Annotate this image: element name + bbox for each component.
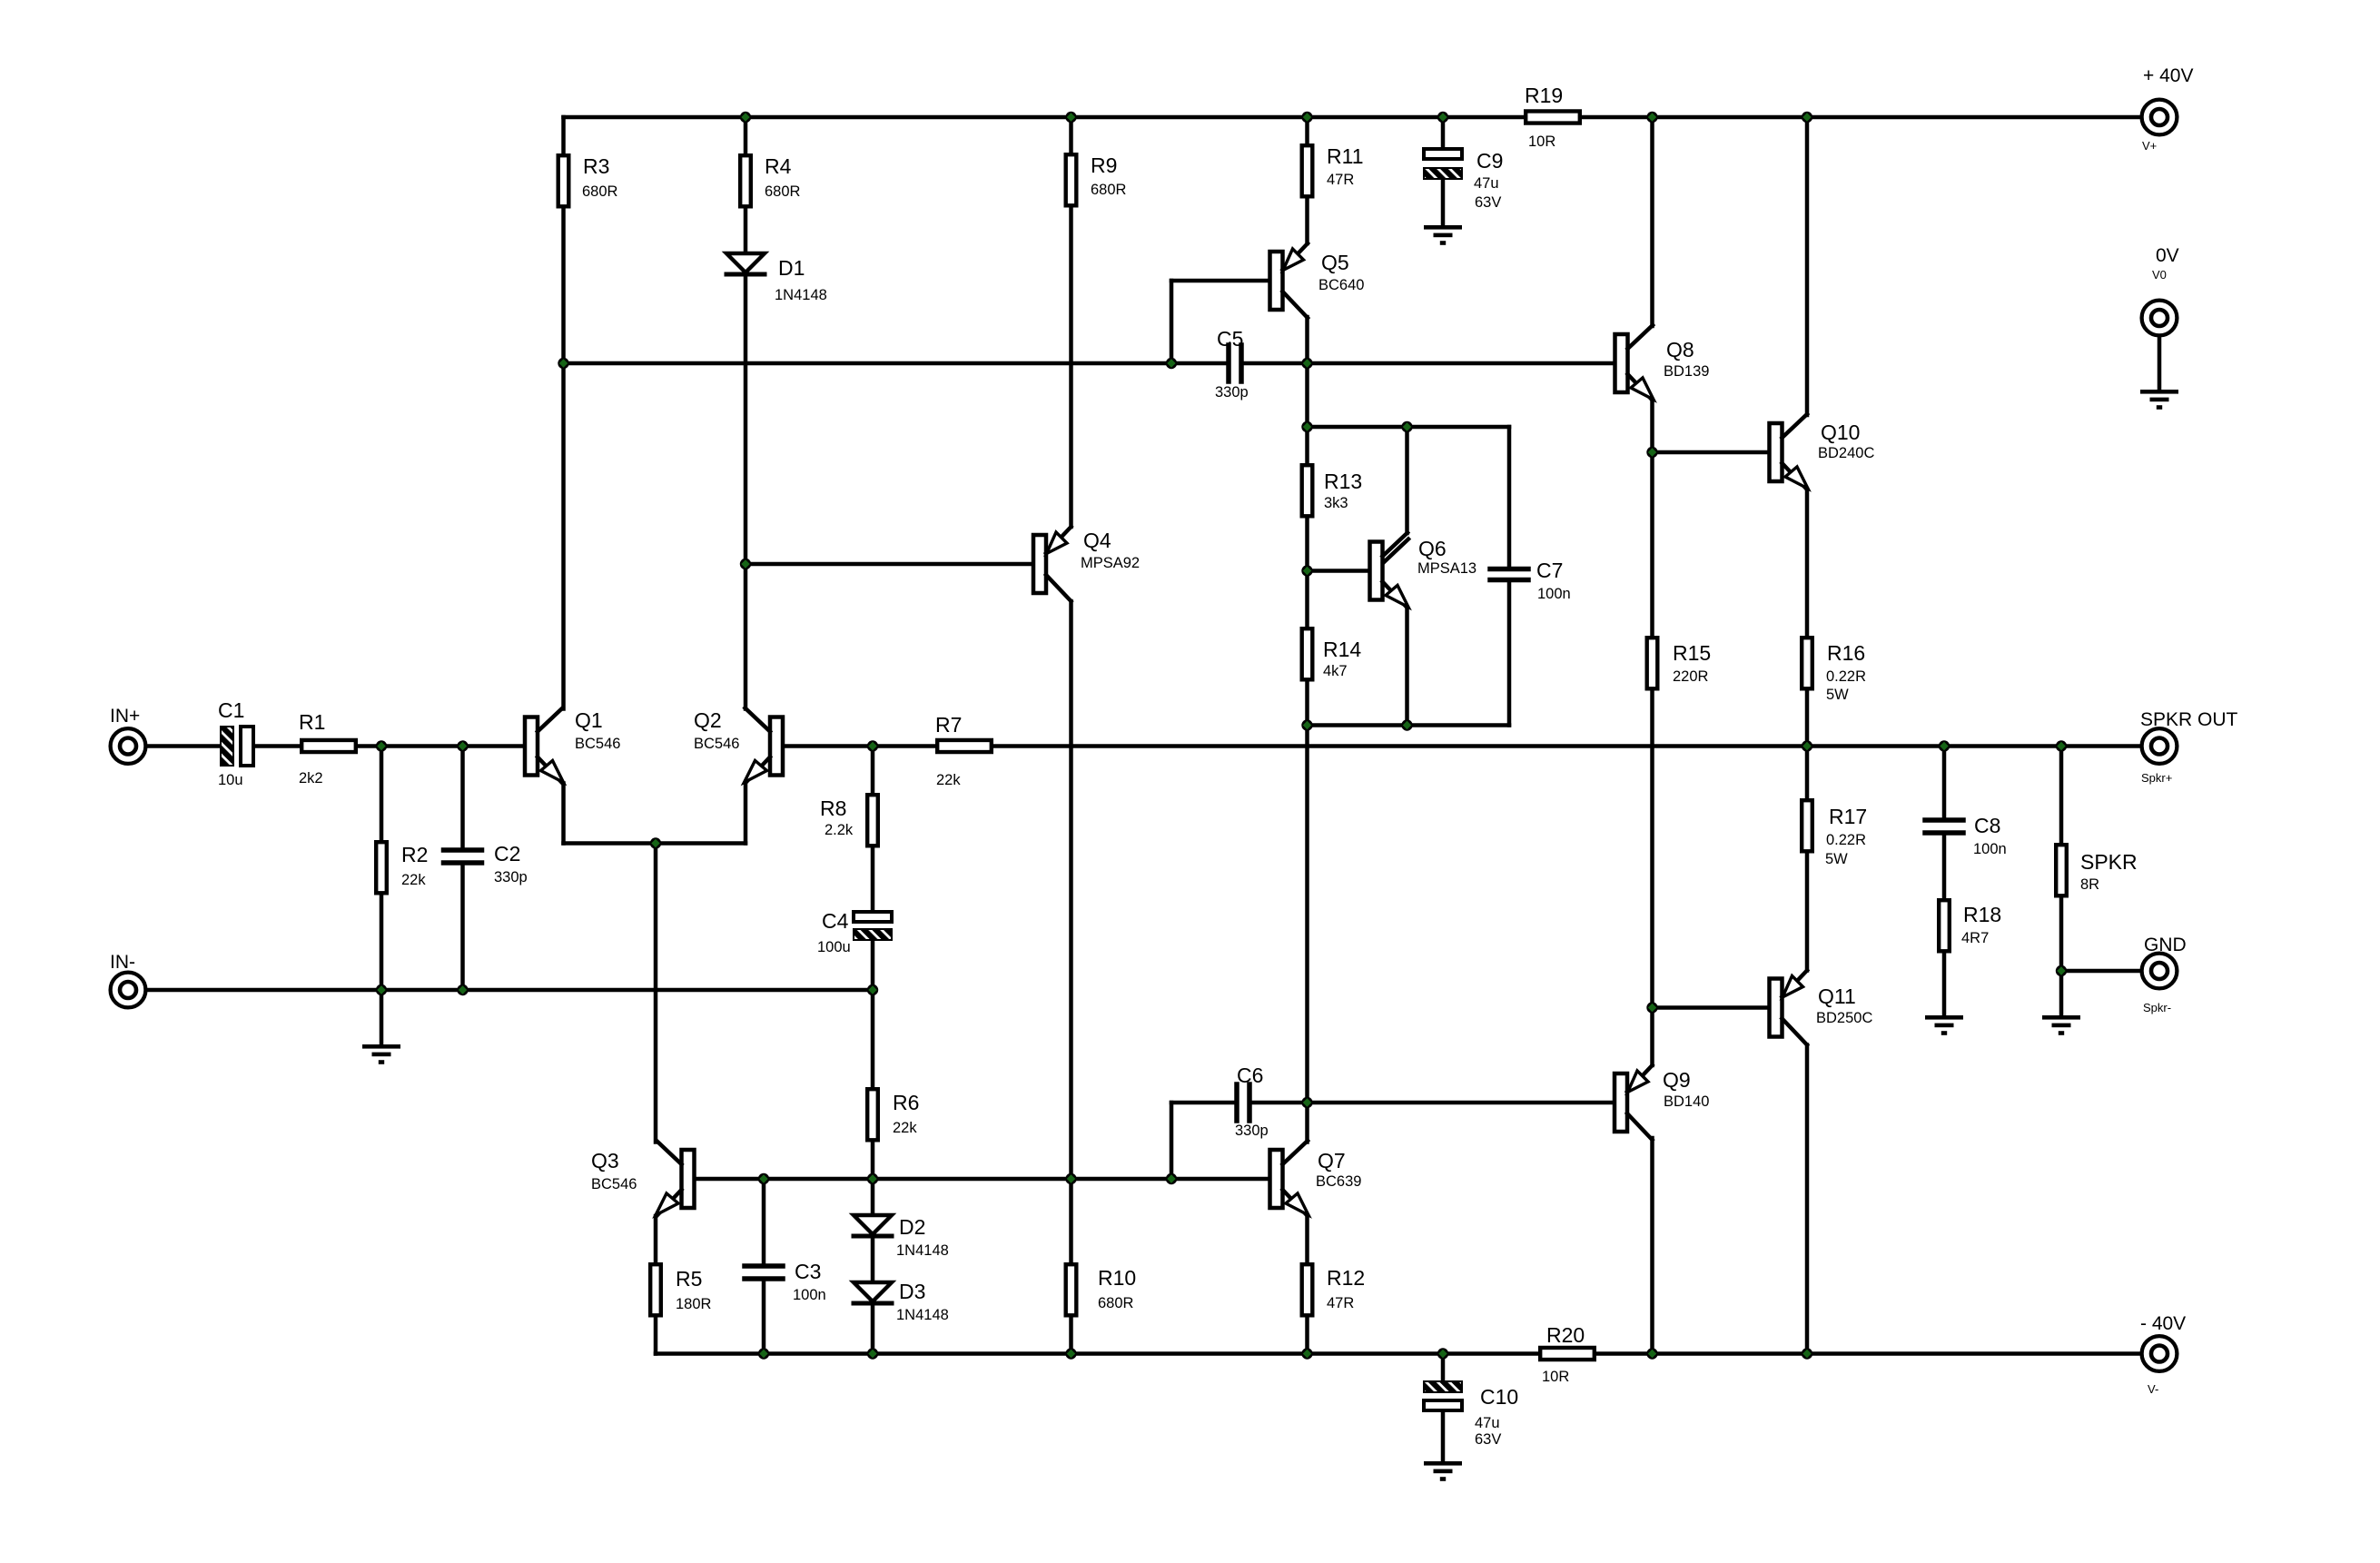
svg-text:680R: 680R [765, 183, 801, 200]
svg-text:R7: R7 [935, 713, 962, 737]
junction C3/bottom rail [758, 1348, 769, 1359]
terminal GND [2142, 935, 2187, 1014]
resistor R13 [1302, 465, 1363, 516]
junction R8/R7 node [867, 740, 878, 751]
junction C8/output rail [1939, 740, 1950, 751]
terminal -40V [2140, 1313, 2186, 1396]
svg-text:Q8: Q8 [1666, 338, 1694, 361]
wire Q4 collector to R10 to bottom rail [1069, 601, 1073, 1354]
svg-text:BD250C: BD250C [1816, 1010, 1872, 1026]
junction Q6 emitter/box bottom [1401, 719, 1412, 730]
wire R6 column (IN- to D2 node) [871, 990, 875, 1215]
svg-text:220R: 220R [1673, 668, 1709, 685]
svg-text:100u: 100u [817, 939, 851, 955]
wire R14 branch [1305, 571, 1309, 726]
svg-text:Q7: Q7 [1318, 1149, 1346, 1172]
wire D3 to bottom rail [871, 1304, 875, 1354]
svg-text:+ 40V: + 40V [2143, 65, 2193, 86]
ground 0V [2140, 390, 2178, 394]
svg-text:Q2: Q2 [694, 708, 722, 732]
svg-text:2k2: 2k2 [299, 770, 323, 786]
svg-text:C10: C10 [1480, 1385, 1518, 1409]
junction C4/IN- line [867, 984, 878, 995]
resistor R2 [376, 842, 428, 893]
svg-text:C4: C4 [822, 909, 849, 933]
wire C7 column upper [1507, 427, 1512, 566]
svg-text:0V: 0V [2156, 245, 2179, 266]
wire Q3 emitter to R5 [654, 1216, 658, 1262]
junction emitter tail [650, 837, 661, 848]
wire tail to Q3 collector [654, 844, 658, 1143]
svg-text:V+: V+ [2142, 139, 2157, 153]
wire SPKR to ground [2059, 971, 2064, 1015]
wire C6 left link [1171, 1101, 1237, 1105]
wire IN+ to C1 [148, 744, 221, 748]
svg-text:Q10: Q10 [1821, 420, 1860, 444]
svg-text:R2: R2 [401, 843, 428, 866]
junction Q9 collector/bottom rail [1646, 1348, 1657, 1359]
svg-text:GND: GND [2144, 935, 2187, 955]
svg-text:R3: R3 [583, 154, 609, 178]
wire Q7 emitter to R12 to bottom rail [1305, 1216, 1309, 1354]
svg-text:C9: C9 [1476, 149, 1503, 173]
resistor SPKR 8R [2056, 845, 2137, 895]
junction C2/rail [457, 740, 468, 751]
svg-text:R11: R11 [1327, 144, 1364, 168]
svg-text:R19: R19 [1525, 84, 1563, 107]
transistor Q10 [1770, 414, 1875, 490]
resistor R9 [1066, 153, 1127, 205]
resistor R8 [820, 795, 878, 846]
svg-text:R20: R20 [1546, 1323, 1585, 1347]
wire R2 column [380, 747, 384, 991]
svg-text:22k: 22k [401, 872, 426, 888]
svg-text:8R: 8R [2080, 876, 2099, 893]
junction SPKR/GND line [2056, 965, 2067, 976]
wire Q10 base line [1653, 450, 1770, 455]
svg-text:R10: R10 [1098, 1266, 1136, 1290]
svg-text:0.22R: 0.22R [1826, 668, 1866, 685]
junction C6 corner/Q3 base line [1166, 1173, 1177, 1184]
resistor R11 [1302, 144, 1364, 196]
svg-text:BC640: BC640 [1318, 277, 1364, 293]
svg-text:C5: C5 [1217, 327, 1243, 351]
junction D1/Q4 base/Q2 collector [740, 559, 751, 569]
junction Q11 collector/bottom rail [1802, 1348, 1812, 1359]
wire C8 column upper [1942, 747, 1947, 818]
junction Q6 base [1301, 565, 1312, 576]
svg-text:Q11: Q11 [1818, 984, 1856, 1008]
junction C3/Q3 base line [758, 1173, 769, 1184]
wire R18 to ground [1942, 955, 1947, 1015]
transistor Q2 [694, 708, 783, 784]
resistor R4 [740, 154, 800, 206]
wire Q5 base horizontal [1171, 279, 1270, 283]
svg-text:IN-: IN- [110, 952, 135, 973]
junction Q8 emitter/Q10 base [1646, 447, 1657, 458]
terminal +40V [2142, 65, 2194, 153]
wire C9 to ground [1441, 179, 1446, 225]
capacitor C2 [444, 842, 528, 885]
transistor Q11 [1770, 971, 1873, 1045]
svg-text:BD139: BD139 [1664, 363, 1709, 380]
wire -40V bottom rail [656, 1351, 2140, 1356]
transistor Q5 [1270, 243, 1365, 318]
svg-text:SPKR: SPKR [2080, 850, 2138, 874]
svg-text:BD240C: BD240C [1818, 445, 1874, 461]
svg-text:4k7: 4k7 [1323, 663, 1348, 679]
wire Q7 collector vertical [1305, 1103, 1309, 1143]
svg-text:680R: 680R [582, 183, 618, 200]
ground R18 [1925, 1015, 1963, 1020]
svg-text:BC546: BC546 [575, 736, 620, 752]
svg-text:BD140: BD140 [1664, 1093, 1709, 1110]
svg-text:Q9: Q9 [1663, 1068, 1691, 1092]
svg-text:22k: 22k [893, 1120, 917, 1136]
svg-text:3k3: 3k3 [1324, 495, 1348, 511]
svg-text:63V: 63V [1475, 1431, 1501, 1448]
capacitor C7 [1490, 559, 1571, 602]
svg-text:R4: R4 [765, 154, 792, 178]
junction Q10 collector/top rail [1802, 112, 1812, 123]
svg-text:5W: 5W [1826, 687, 1849, 703]
wire D2-D3 link [871, 1237, 875, 1282]
wire C3 column upper [762, 1179, 766, 1264]
transistor Q7 [1270, 1141, 1362, 1216]
wire Q9 collector to bottom rail [1650, 1138, 1654, 1354]
junction R9/top rail [1065, 112, 1076, 123]
resistor R6 [867, 1089, 919, 1140]
svg-text:Q6: Q6 [1418, 537, 1447, 560]
capacitor C4 [817, 909, 892, 955]
svg-text:100n: 100n [1537, 586, 1571, 602]
svg-text:IN+: IN+ [110, 706, 140, 727]
junction R12/bottom rail [1301, 1348, 1312, 1359]
svg-text:100n: 100n [1973, 841, 2007, 857]
resistor R17 [1802, 800, 1867, 867]
wire C9 top stub [1441, 117, 1446, 149]
wire output rail (R7 to SPKR OUT) [992, 744, 2140, 748]
ground C9 [1424, 225, 1462, 230]
terminal SPKR OUT [2140, 709, 2238, 785]
junction R13 top [1301, 421, 1312, 432]
junction D3/bottom rail [867, 1348, 878, 1359]
svg-text:63V: 63V [1475, 194, 1501, 211]
svg-text:680R: 680R [1091, 182, 1127, 198]
junction R3/VAS line [558, 358, 568, 369]
svg-text:R16: R16 [1827, 641, 1865, 665]
ground input [362, 1044, 400, 1049]
wire C2 column lower [460, 865, 465, 991]
junction SPKR/output rail [2056, 740, 2067, 751]
terminal 0V [2142, 245, 2179, 335]
ground SPKR [2042, 1015, 2080, 1020]
wire +40V top rail [564, 115, 2141, 120]
wire SPKR column upper [2059, 747, 2064, 972]
svg-text:Spkr+: Spkr+ [2141, 771, 2172, 785]
wire Q2 emitter vertical [744, 784, 748, 844]
wire C3 column lower [762, 1281, 766, 1354]
resistor R3 [558, 154, 618, 206]
svg-text:10R: 10R [1528, 134, 1555, 150]
svg-text:330p: 330p [1235, 1123, 1269, 1139]
svg-text:C2: C2 [494, 842, 520, 866]
wire R8 column (rail to C4) [871, 747, 875, 913]
transistor Q1 [525, 708, 620, 784]
svg-text:1N4148: 1N4148 [896, 1307, 949, 1323]
wire R5 to bottom rail [654, 1319, 658, 1354]
wire bias box top [1308, 425, 1510, 430]
svg-text:330p: 330p [494, 869, 528, 885]
resistor R12 [1302, 1264, 1366, 1315]
svg-text:R17: R17 [1829, 805, 1867, 828]
junction R4/top rail [740, 112, 751, 123]
svg-text:- 40V: - 40V [2140, 1313, 2186, 1334]
wire C8 to R18 [1942, 836, 1947, 899]
junction R16/R17/output rail [1802, 740, 1812, 751]
wire node VAS line left (R3/Q1 collector to C5) [564, 361, 1230, 366]
wire Q8 emitter vertical [1650, 401, 1654, 452]
wire R11 column (top rail to Q5 emitter) [1305, 117, 1309, 243]
wire C10 top stub [1441, 1354, 1446, 1382]
svg-text:D3: D3 [899, 1280, 925, 1303]
wire Q5 collector to VAS node [1305, 317, 1309, 363]
transistor Q8 [1615, 325, 1710, 401]
svg-text:Q4: Q4 [1083, 529, 1111, 552]
resistor R1 [299, 710, 356, 786]
resistor R18 [1939, 900, 2001, 951]
svg-text:R18: R18 [1963, 903, 2001, 926]
svg-text:47R: 47R [1327, 172, 1354, 188]
diode D2 [854, 1215, 949, 1259]
svg-text:0.22R: 0.22R [1826, 832, 1866, 848]
wire VAS node to box top [1305, 363, 1309, 427]
wire Q11 base line [1653, 1005, 1770, 1010]
svg-text:C1: C1 [218, 698, 244, 722]
terminal IN- [110, 952, 145, 1007]
svg-text:1N4148: 1N4148 [896, 1242, 949, 1259]
wire Q6 emitter vertical [1405, 608, 1409, 726]
svg-text:Spkr-: Spkr- [2143, 1001, 2171, 1014]
svg-text:BC639: BC639 [1316, 1173, 1361, 1190]
capacitor C6 [1235, 1063, 1269, 1139]
transistor Q4 [1033, 527, 1140, 601]
junction R10 top [1065, 1173, 1076, 1184]
junction Q6 collector/box top [1401, 421, 1412, 432]
junction R11/top rail [1301, 112, 1312, 123]
svg-text:D2: D2 [899, 1215, 925, 1239]
capacitor C8 [1925, 814, 2007, 857]
wire Q1/Q2 emitter tail [564, 841, 746, 846]
wire R9 column (top rail to Q4 emitter) [1069, 117, 1073, 527]
wire Q10 emitter to R16 [1805, 490, 1810, 747]
wire Q1 emitter vertical [561, 784, 566, 844]
svg-text:10u: 10u [218, 772, 243, 788]
svg-text:10R: 10R [1542, 1369, 1569, 1385]
svg-text:SPKR OUT: SPKR OUT [2140, 709, 2238, 730]
svg-text:R15: R15 [1673, 641, 1711, 665]
junction C2/IN- line [457, 984, 468, 995]
svg-text:4R7: 4R7 [1961, 930, 1989, 946]
junction R2/IN- line [376, 984, 387, 995]
svg-text:Q1: Q1 [575, 708, 603, 732]
svg-text:Q5: Q5 [1321, 251, 1349, 274]
wire Q8 collector vertical [1650, 117, 1654, 326]
capacitor C3 [745, 1260, 826, 1303]
svg-text:47u: 47u [1474, 175, 1499, 192]
wire node VAS line right (C5 to Q8 base) [1241, 361, 1615, 366]
resistor R15 [1647, 638, 1712, 688]
wire Q6 base stub [1308, 569, 1370, 573]
svg-text:1N4148: 1N4148 [775, 287, 827, 303]
ground C10 [1424, 1461, 1462, 1466]
junction C10/bottom rail [1437, 1348, 1448, 1359]
wire R1 to Q1 base [357, 744, 525, 748]
svg-text:R5: R5 [676, 1267, 702, 1291]
wire Q2 base to R7 [783, 744, 935, 748]
capacitor C9 [1424, 149, 1503, 211]
wire R3 column (top rail to Q1 collector) [561, 117, 566, 709]
diode D3 [854, 1280, 949, 1323]
wire bias box bottom [1308, 723, 1510, 727]
resistor R7 [935, 713, 992, 788]
wire C4 to IN- node [871, 941, 875, 990]
wire SPKR to GND terminal [2061, 969, 2140, 974]
wire D1 cathode to Q4 base node [744, 276, 748, 564]
wire Q5 base vertical drop [1170, 281, 1174, 363]
resistor R16 [1802, 638, 1866, 703]
svg-text:R14: R14 [1323, 638, 1361, 661]
svg-text:R13: R13 [1324, 470, 1362, 493]
svg-text:V-: V- [2148, 1382, 2158, 1396]
resistor R19 [1525, 84, 1580, 150]
capacitor C1 [218, 698, 253, 788]
transistor Q9 [1615, 1065, 1709, 1140]
svg-text:BC546: BC546 [694, 736, 739, 752]
svg-text:V0: V0 [2152, 268, 2167, 282]
wire C1 to R1 [253, 744, 300, 748]
svg-text:MPSA92: MPSA92 [1081, 555, 1140, 571]
wire Q3/Q7 base line [695, 1177, 1270, 1182]
terminal IN+ [110, 706, 145, 764]
wire Q4 base line [746, 562, 1033, 567]
svg-text:MPSA13: MPSA13 [1417, 560, 1476, 577]
svg-text:47R: 47R [1327, 1295, 1354, 1311]
junction C9/top rail [1437, 112, 1448, 123]
wire R13 branch [1305, 427, 1309, 571]
svg-text:22k: 22k [936, 772, 961, 788]
svg-text:2.2k: 2.2k [825, 822, 854, 838]
wire box bottom to Q7 collector node [1305, 726, 1309, 1103]
resistor R20 [1540, 1323, 1595, 1385]
svg-text:C7: C7 [1536, 559, 1563, 582]
wire R4/D1 column upper [744, 117, 748, 253]
transistor Q3 [591, 1141, 695, 1216]
wire C6 to Q9 base [1249, 1101, 1615, 1105]
svg-text:C8: C8 [1974, 814, 2000, 837]
diode D1 [726, 253, 827, 303]
resistor R14 [1302, 628, 1362, 679]
junction Q5 collector/VAS line [1301, 358, 1312, 369]
svg-text:180R: 180R [676, 1296, 712, 1312]
junction R14 bottom [1301, 719, 1312, 730]
svg-text:330p: 330p [1215, 384, 1249, 401]
junction R6/D2 node [867, 1173, 878, 1184]
capacitor C10 [1424, 1381, 1518, 1448]
wire Q2 collector vertical [744, 564, 748, 709]
wire Q11 collector to bottom rail [1805, 1045, 1810, 1354]
junction R10/bottom rail [1065, 1348, 1076, 1359]
junction Q8 collector/top rail [1646, 112, 1657, 123]
svg-text:R8: R8 [820, 796, 846, 820]
wire Q9 emitter vertical [1650, 1008, 1654, 1066]
wire C2 column upper [460, 747, 465, 848]
svg-text:D1: D1 [778, 256, 805, 280]
junction C6/Q7 collector [1301, 1097, 1312, 1108]
svg-text:100n: 100n [793, 1287, 826, 1303]
svg-text:R9: R9 [1091, 153, 1117, 177]
wire C6 corner drop [1170, 1103, 1174, 1179]
junction R1/R2 node [376, 740, 387, 751]
resistor R10 [1066, 1264, 1137, 1315]
svg-text:BC546: BC546 [591, 1176, 637, 1192]
wire R17 column (rail to Q11 emitter) [1805, 747, 1810, 971]
wire R15 column (Q8 emitter to Q9 emitter) [1650, 452, 1654, 1008]
svg-text:R12: R12 [1327, 1266, 1365, 1290]
wire C7 column lower [1507, 584, 1512, 726]
wire input ground drop [380, 990, 384, 1044]
wire IN- line [148, 988, 873, 993]
svg-text:5W: 5W [1825, 851, 1848, 867]
capacitor C5 [1215, 327, 1249, 401]
svg-text:C6: C6 [1237, 1063, 1263, 1087]
junction Q9 emitter/Q11 base [1646, 1002, 1657, 1013]
svg-text:R1: R1 [299, 710, 325, 734]
junction Q5 base/VAS line [1166, 358, 1177, 369]
wire Q10 collector vertical [1805, 117, 1810, 415]
wire C10 to ground [1441, 1410, 1446, 1461]
wire 0V terminal to ground [2158, 338, 2162, 391]
svg-text:C3: C3 [795, 1260, 821, 1283]
wire Q6 collector vertical [1405, 427, 1409, 533]
svg-text:Q3: Q3 [591, 1149, 619, 1172]
svg-text:680R: 680R [1098, 1295, 1134, 1311]
svg-text:47u: 47u [1475, 1415, 1500, 1431]
svg-text:R6: R6 [893, 1091, 919, 1114]
resistor R5 [650, 1264, 711, 1315]
transistor Q6 [1370, 533, 1477, 608]
